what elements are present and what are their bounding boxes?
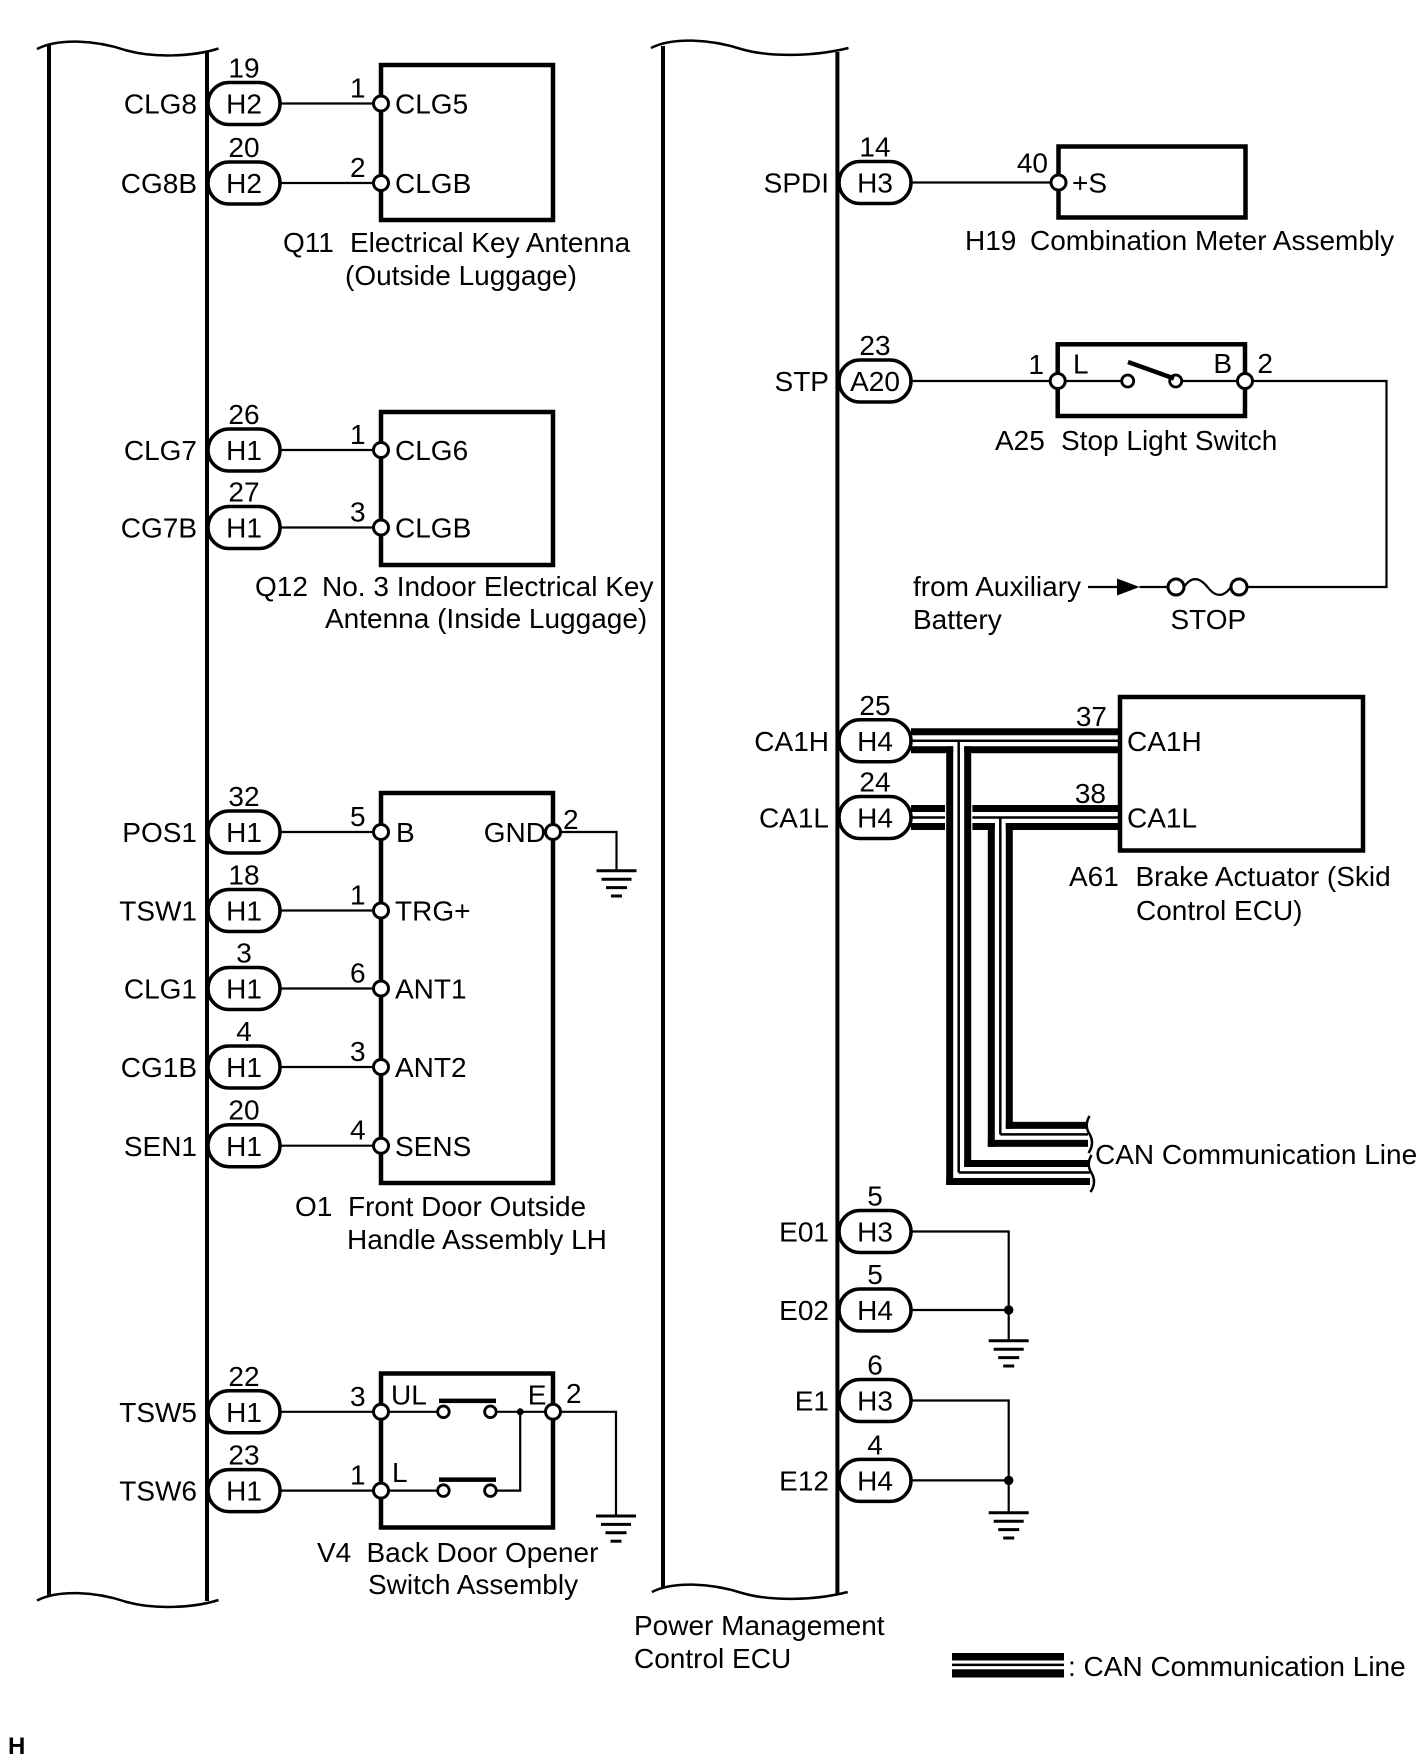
wire CLG7 to Q12 pin 1 [280, 449, 376, 451]
svg-text:H1: H1 [226, 1131, 262, 1162]
svg-text:ANT2: ANT2 [395, 1052, 467, 1083]
connector oval H1 (CLG7) [208, 429, 280, 471]
svg-text:H19: H19 [965, 225, 1016, 256]
svg-text:CG1B: CG1B [121, 1052, 197, 1083]
wire junction to ground [1008, 1310, 1010, 1339]
svg-text:3: 3 [350, 497, 366, 528]
wire arrow to fuse [1140, 586, 1169, 588]
from Auxiliary Battery label [913, 571, 1081, 635]
pin circle O1-1 [374, 903, 389, 918]
legend CAN line symbol [952, 1653, 1064, 1678]
svg-text:23: 23 [228, 1440, 259, 1471]
svg-text:5: 5 [350, 801, 366, 832]
connector oval H2 (CG8B) [208, 162, 280, 204]
wire E12 to junction [911, 1479, 1009, 1481]
svg-text:Electrical Key Antenna: Electrical Key Antenna [350, 227, 631, 258]
wire pin3 to UL contact [388, 1411, 438, 1413]
svg-text:H4: H4 [857, 1465, 893, 1496]
wire E pin to ground [560, 1412, 616, 1515]
switch UL blade [439, 1399, 496, 1404]
pin circle Q12-1 [374, 443, 389, 458]
fuse STOP left terminal [1168, 579, 1184, 595]
svg-text:H1: H1 [226, 1476, 262, 1507]
svg-text:3: 3 [236, 938, 252, 969]
wire contact to pin B [1182, 380, 1238, 382]
svg-text:L: L [1073, 349, 1089, 380]
svg-text:25: 25 [859, 690, 890, 721]
connector oval H1 (POS1) [208, 811, 280, 853]
svg-text:E12: E12 [779, 1465, 829, 1496]
svg-text:CAN Communication Line: CAN Communication Line [1095, 1139, 1417, 1170]
svg-text:CLGB: CLGB [395, 168, 471, 199]
connector oval H3 (E1) [839, 1380, 911, 1422]
svg-text:H4: H4 [857, 803, 893, 834]
connector oval H3 (E01) [839, 1211, 911, 1253]
wire pin1 to contact [1065, 380, 1122, 382]
connector oval H2 (CLG8) [208, 83, 280, 125]
svg-text:1: 1 [1028, 349, 1044, 380]
svg-text:E01: E01 [779, 1217, 829, 1248]
svg-text:STP: STP [775, 366, 829, 397]
svg-text:O1: O1 [295, 1191, 332, 1222]
svg-text:14: 14 [859, 132, 890, 163]
svg-text:Q11: Q11 [283, 227, 334, 258]
arrow head [1117, 579, 1140, 596]
svg-text:SEN1: SEN1 [124, 1131, 197, 1162]
svg-text:E1: E1 [795, 1386, 829, 1417]
wire pin1 to L contact [388, 1489, 438, 1491]
svg-text:TSW5: TSW5 [119, 1397, 197, 1428]
CAN stub break mark (upper) [1087, 1116, 1092, 1153]
connector oval H1 (TSW1) [208, 890, 280, 932]
connector oval H1 (CLG1) [208, 968, 280, 1010]
switch L contact right [485, 1485, 497, 1497]
antenna Q12 caption [255, 571, 654, 634]
svg-text:CG8B: CG8B [121, 168, 197, 199]
wire SEN1 to O1 pin 4 [280, 1145, 376, 1147]
svg-text:H2: H2 [226, 89, 262, 120]
svg-text:V4: V4 [317, 1537, 351, 1568]
svg-text:(Outside Luggage): (Outside Luggage) [345, 260, 577, 291]
connector oval H1 (CG1B) [208, 1046, 280, 1088]
switch L blade [439, 1477, 496, 1482]
svg-text:19: 19 [228, 53, 259, 84]
switch V4 caption [317, 1537, 598, 1600]
pin circle O1-6 [374, 981, 389, 996]
meter H19 caption [965, 225, 1394, 256]
meter H19 box [1059, 147, 1246, 218]
svg-text:Control ECU: Control ECU [634, 1643, 791, 1674]
pin circle V4-3 [374, 1404, 389, 1419]
ground (V4 E) [596, 1516, 636, 1541]
svg-text:CLG1: CLG1 [124, 974, 197, 1005]
svg-text:A61: A61 [1069, 861, 1119, 892]
svg-text:Q12: Q12 [255, 571, 308, 602]
svg-text:Back Door Opener: Back Door Opener [367, 1537, 599, 1568]
svg-text:Switch Assembly: Switch Assembly [368, 1569, 578, 1600]
wire CG8B to Q11 pin 2 [280, 182, 376, 184]
svg-text:Control ECU): Control ECU) [1136, 895, 1302, 926]
svg-text:CLG6: CLG6 [395, 435, 468, 466]
svg-text:Handle Assembly LH: Handle Assembly LH [347, 1224, 607, 1255]
svg-text:STOP: STOP [1171, 604, 1247, 635]
connector oval H4 (E02) [839, 1289, 911, 1331]
junction dot (V4) [517, 1408, 524, 1415]
svg-text:No. 3 Indoor Electrical Key: No. 3 Indoor Electrical Key [322, 571, 654, 602]
svg-text:POS1: POS1 [122, 817, 197, 848]
svg-text:H2: H2 [226, 168, 262, 199]
wire E02 to junction [911, 1309, 1009, 1311]
svg-text:2: 2 [563, 804, 579, 835]
wire CG7B to Q12 pin 3 [280, 526, 376, 528]
svg-text:H1: H1 [226, 513, 262, 544]
svg-text:5: 5 [867, 1181, 883, 1212]
svg-text:H4: H4 [857, 726, 893, 757]
right ECU bus bottom break wave [652, 1585, 848, 1599]
wire CLG8 to Q11 pin 1 [280, 102, 376, 104]
right ECU bus top break wave [651, 41, 849, 55]
switch A25 caption [995, 425, 1277, 456]
svg-text:H1: H1 [226, 974, 262, 1005]
pin circle V4-1 [374, 1483, 389, 1498]
wire CG1B to O1 pin 3 [280, 1066, 376, 1068]
svg-text:E02: E02 [779, 1295, 829, 1326]
svg-text:26: 26 [228, 399, 259, 430]
wire E01 to junction [911, 1232, 1009, 1311]
svg-text:Battery: Battery [913, 604, 1002, 635]
pin circle Q11-2 [374, 176, 389, 191]
connector oval H4 (E12) [839, 1459, 911, 1501]
wire battery feed arrow lead [1088, 586, 1117, 588]
connector oval A20 (STP) [839, 360, 911, 402]
svg-text:CA1L: CA1L [759, 803, 829, 834]
wire junction to ground [1008, 1480, 1010, 1511]
switch contact right [1170, 375, 1182, 387]
svg-text:Front Door Outside: Front Door Outside [348, 1191, 586, 1222]
ground (E01/E02) [989, 1341, 1029, 1366]
svg-text:H3: H3 [857, 168, 893, 199]
svg-text:TRG+: TRG+ [395, 896, 470, 927]
svg-text:40: 40 [1017, 148, 1048, 179]
svg-text:UL: UL [391, 1380, 427, 1411]
wire TSW6 to V4 pin 1 [280, 1489, 376, 1491]
left ECU bus bottom break wave [37, 1593, 219, 1607]
handle assembly O1 caption [295, 1191, 607, 1255]
antenna Q11 box [381, 65, 553, 220]
svg-text:1: 1 [350, 73, 366, 104]
wire CLG1 to O1 pin 6 [280, 987, 376, 989]
connector oval H4 (CA1L) [839, 797, 911, 839]
svg-text:from Auxiliary: from Auxiliary [913, 571, 1081, 602]
switch UL contact right [485, 1406, 497, 1418]
right ECU bus left edge [661, 46, 665, 1588]
svg-text:24: 24 [859, 767, 890, 798]
svg-text:Brake Actuator (Skid: Brake Actuator (Skid [1136, 861, 1391, 892]
svg-text:L: L [392, 1457, 408, 1488]
fuse STOP element [1184, 579, 1231, 595]
pin circle Q12-3 [374, 520, 389, 535]
CAN stub break mark (lower) [1089, 1155, 1094, 1192]
right ECU name label [634, 1610, 885, 1674]
pin circle A25-2 B [1238, 374, 1253, 389]
svg-text:22: 22 [228, 1361, 259, 1392]
left ECU bus top break wave [37, 42, 219, 56]
pin circle A25-1 [1050, 374, 1065, 389]
svg-text:A25: A25 [995, 425, 1045, 456]
switch blade [1128, 362, 1174, 379]
svg-text:H1: H1 [226, 1397, 262, 1428]
handle assembly O1 box [381, 793, 553, 1183]
svg-text:TSW6: TSW6 [119, 1476, 197, 1507]
pin circle O1-5 [374, 825, 389, 840]
switch V4 box [381, 1374, 553, 1528]
svg-text:H4: H4 [857, 1295, 893, 1326]
pin circle O1-4 [374, 1138, 389, 1153]
svg-text:CG7B: CG7B [121, 513, 197, 544]
svg-text:+S: +S [1072, 168, 1107, 199]
connector oval H3 (SPDI) [839, 162, 911, 204]
svg-text:4: 4 [867, 1429, 883, 1460]
right ECU bus right edge [835, 52, 839, 1594]
antenna Q11 caption [283, 227, 631, 291]
svg-text:2: 2 [350, 152, 366, 183]
brake actuator A61 box [1120, 697, 1363, 851]
svg-text:CLG7: CLG7 [124, 435, 197, 466]
wire pin B down to fuse line [1247, 381, 1387, 587]
svg-text:CA1H: CA1H [1127, 726, 1202, 757]
svg-text:6: 6 [867, 1350, 883, 1381]
pin circle V4-2 E [546, 1404, 561, 1419]
ground (E1/E12) [989, 1513, 1029, 1538]
pin circle H19-40 [1051, 175, 1066, 190]
svg-text:H: H [8, 1733, 25, 1760]
wire POS1 to O1 pin 5 [280, 831, 376, 833]
left ECU bus right edge [205, 52, 209, 1601]
svg-text:SPDI: SPDI [764, 168, 829, 199]
svg-text:2: 2 [566, 1378, 582, 1409]
svg-text:B: B [1213, 348, 1232, 379]
wire CAN branch from CA1L down and right (stub) [987, 818, 1088, 1147]
svg-text:B: B [396, 817, 415, 848]
ground (O1 GND) [597, 871, 637, 896]
svg-text:TSW1: TSW1 [119, 896, 197, 927]
wire SPDI to H19 pin 40 [911, 181, 1053, 183]
wire L contact up to junction [496, 1413, 520, 1491]
connector oval H1 (TSW5) [208, 1391, 280, 1433]
svg-text:GND: GND [484, 817, 546, 848]
svg-text:38: 38 [1075, 778, 1106, 809]
wire TSW1 to O1 pin 1 [280, 909, 376, 911]
svg-text:23: 23 [859, 330, 890, 361]
svg-text:3: 3 [350, 1381, 366, 1412]
junction dot E1/E12 [1004, 1476, 1013, 1485]
switch UL contact left [438, 1406, 450, 1418]
pin circle O1-2 GND [546, 825, 561, 840]
svg-text:CLG5: CLG5 [395, 89, 468, 120]
svg-text:H1: H1 [226, 1052, 262, 1083]
svg-text:1: 1 [350, 880, 366, 911]
left ECU bus left edge [47, 45, 51, 1596]
wire CAN bundle CA1H to A61 pin 37 [911, 728, 1118, 753]
svg-text:CLGB: CLGB [395, 513, 471, 544]
wire GND to ground [560, 832, 617, 869]
svg-text:CLG8: CLG8 [124, 89, 197, 120]
svg-text:27: 27 [228, 477, 259, 508]
svg-text:: CAN Communication Line: : CAN Communication Line [1068, 1651, 1406, 1682]
svg-text:CA1L: CA1L [1127, 803, 1197, 834]
wire UL contact to E pin [496, 1411, 546, 1413]
svg-text:1: 1 [350, 1460, 366, 1491]
svg-text:32: 32 [228, 781, 259, 812]
svg-text:5: 5 [867, 1259, 883, 1290]
svg-text:4: 4 [236, 1016, 252, 1047]
svg-text:H1: H1 [226, 896, 262, 927]
svg-text:ANT1: ANT1 [395, 974, 467, 1005]
svg-text:H3: H3 [857, 1217, 893, 1248]
svg-text:Antenna (Inside Luggage): Antenna (Inside Luggage) [325, 603, 647, 634]
wire TSW5 to V4 pin 3 [280, 1411, 376, 1413]
wire STP to A25 pin 1 [911, 380, 1051, 382]
junction dot E01/E02 [1004, 1305, 1013, 1314]
svg-text:1: 1 [350, 419, 366, 450]
svg-text:37: 37 [1076, 701, 1107, 732]
brake actuator A61 caption [1069, 861, 1391, 926]
svg-text:20: 20 [228, 132, 259, 163]
svg-text:Combination Meter Assembly: Combination Meter Assembly [1030, 225, 1394, 256]
switch A25 box [1058, 344, 1245, 416]
svg-text:18: 18 [228, 860, 259, 891]
switch L contact left [438, 1485, 450, 1497]
pin circle O1-3 [374, 1060, 389, 1075]
antenna Q12 box [381, 412, 553, 565]
svg-text:SENS: SENS [395, 1131, 471, 1162]
svg-text:H3: H3 [857, 1386, 893, 1417]
connector oval H1 (TSW6) [208, 1470, 280, 1512]
svg-text:4: 4 [350, 1115, 366, 1146]
svg-text:E: E [528, 1380, 547, 1411]
svg-text:CA1H: CA1H [754, 726, 829, 757]
svg-text:Power Management: Power Management [634, 1610, 885, 1641]
wire CAN branch from CA1H down and right (stub) [945, 741, 1090, 1185]
connector oval H1 (SEN1) [208, 1125, 280, 1167]
pin circle Q11-1 [374, 96, 389, 111]
svg-text:H1: H1 [226, 435, 262, 466]
svg-text:6: 6 [350, 958, 366, 989]
wire CAN bundle CA1L to A61 pin 38 [911, 805, 1118, 830]
svg-text:Stop Light Switch: Stop Light Switch [1061, 425, 1277, 456]
fuse STOP right terminal [1231, 579, 1247, 595]
wire E1 to junction [911, 1401, 1009, 1481]
svg-text:3: 3 [350, 1036, 366, 1067]
svg-text:2: 2 [1257, 348, 1273, 379]
switch contact left [1122, 375, 1134, 387]
connector oval H1 (CG7B) [208, 507, 280, 549]
svg-text:H1: H1 [226, 817, 262, 848]
svg-text:A20: A20 [850, 366, 900, 397]
connector oval H4 (CA1H) [839, 720, 911, 762]
svg-text:20: 20 [228, 1095, 259, 1126]
